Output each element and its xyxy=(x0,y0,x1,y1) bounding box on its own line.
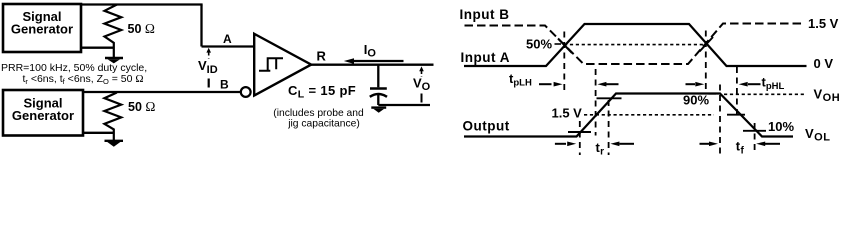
svg-text:Output: Output xyxy=(463,118,510,133)
svg-text:0 V: 0 V xyxy=(814,56,834,71)
svg-text:50 Ω: 50 Ω xyxy=(128,99,155,114)
current IO arrow xyxy=(344,58,404,64)
svg-text:50%: 50% xyxy=(526,36,552,51)
svg-text:50 Ω: 50 Ω xyxy=(128,21,155,36)
crossing X mark right xyxy=(700,37,714,52)
signal generator 1 xyxy=(3,4,81,52)
waveform Output (solid) xyxy=(464,94,793,137)
wire top output of generator 1 xyxy=(81,3,203,5)
hysteresis symbol inside comparator xyxy=(259,58,283,70)
resistor R1 xyxy=(105,5,122,58)
ground (generator 1 termination) xyxy=(105,58,123,63)
tick 10% on falling edge xyxy=(743,130,766,132)
vertical dashed line output rise 90% xyxy=(608,100,610,155)
waveform Input A (solid) xyxy=(464,24,807,66)
signal generator 2 xyxy=(3,90,83,136)
svg-text:B: B xyxy=(220,77,229,91)
tick 90% on rising edge xyxy=(597,97,622,99)
crossing X mark left xyxy=(558,39,572,54)
op-amp U1 comparator triangle xyxy=(254,34,311,96)
ground (load) xyxy=(371,108,386,113)
vertical dashed line output fall 90% xyxy=(719,85,721,156)
inverting input bubble on B input xyxy=(241,87,251,97)
tick 1.5V on falling edge xyxy=(727,114,745,116)
50% reference dashed line xyxy=(555,43,562,45)
wire into comparator input A xyxy=(202,45,254,47)
svg-text:Generator: Generator xyxy=(11,22,73,37)
svg-text:Input A: Input A xyxy=(461,50,510,65)
vertical dashed line V1 at input crossing 1 xyxy=(563,32,565,94)
waveform Input B (dashed) xyxy=(465,24,806,65)
VOH level dashed line xyxy=(709,93,717,95)
vertical dashed line output rise 10% xyxy=(579,121,581,155)
1.5V output level dashed line xyxy=(584,114,714,116)
tr measurement arrows xyxy=(555,142,634,147)
svg-text:Input B: Input B xyxy=(460,7,510,22)
wire vertical drop to node A xyxy=(200,5,202,47)
svg-text:1.5 V: 1.5 V xyxy=(808,16,839,31)
wire return of generator 1 xyxy=(81,47,114,49)
tpLH measurement arrows xyxy=(539,82,619,87)
vertical dashed line output fall 10% xyxy=(754,123,756,153)
note probe capacitance xyxy=(273,108,364,130)
svg-text:A: A xyxy=(223,32,232,46)
svg-text:Generator: Generator xyxy=(12,108,74,123)
wire output of generator 2 to input B xyxy=(84,91,240,93)
resistor R2 xyxy=(104,93,121,141)
wire return of generator 2 xyxy=(83,132,114,134)
capacitor CL xyxy=(370,65,387,105)
wire comparator output xyxy=(311,64,434,66)
svg-text:tr <6ns, tf <6ns, ZO = 50 Ω: tr <6ns, tf <6ns, ZO = 50 Ω xyxy=(23,73,144,86)
svg-text:90%: 90% xyxy=(683,93,709,108)
VID differential indicator (dashed arrow between A and B) xyxy=(206,48,211,88)
svg-text:10%: 10% xyxy=(768,119,794,134)
svg-text:R: R xyxy=(317,48,327,63)
tick 10% on rising edge xyxy=(568,131,591,133)
vertical dashed line V2 at input crossing 2 xyxy=(705,31,707,91)
source annotation PRR text xyxy=(1,62,147,86)
vertical dashed line output fall 50% xyxy=(736,67,738,119)
svg-text:1.5 V: 1.5 V xyxy=(552,105,583,120)
svg-text:jig capacitance): jig capacitance) xyxy=(287,119,360,130)
tpHL measurement arrows xyxy=(686,82,761,87)
svg-text:(includes probe and: (includes probe and xyxy=(273,108,364,119)
tf measurement arrows xyxy=(700,142,781,147)
Vo indicator arrow xyxy=(419,66,424,102)
vertical dashed line output rise 50% xyxy=(595,69,597,136)
ground (generator 2 termination) xyxy=(105,141,124,147)
wire bottom rail under Vo xyxy=(378,104,430,106)
